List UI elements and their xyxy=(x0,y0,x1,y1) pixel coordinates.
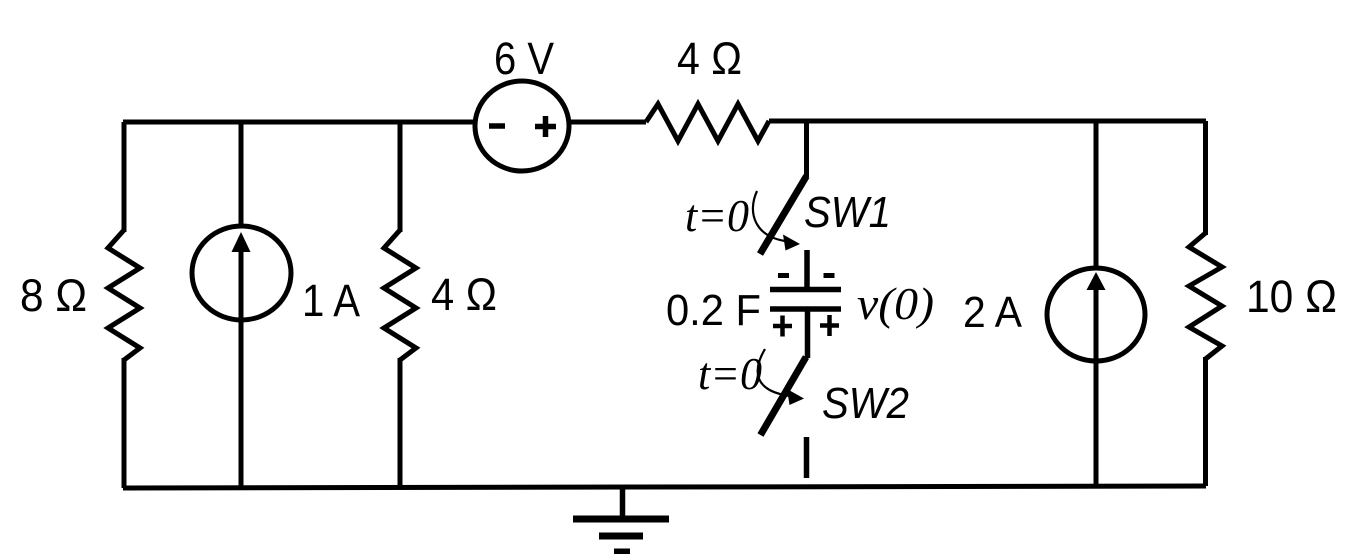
wire 2A branch upper xyxy=(1094,121,1099,269)
wire left vertical upper xyxy=(122,122,127,232)
svg-text:v(0): v(0) xyxy=(857,278,934,329)
svg-text:2 A: 2 A xyxy=(963,288,1023,337)
resistor R1 8ohm zigzag xyxy=(108,230,140,360)
wire between source and R top xyxy=(568,120,646,125)
ground bar 3 xyxy=(614,549,630,556)
wire top-right segment xyxy=(769,119,1206,124)
wire right vertical upper xyxy=(1203,121,1208,235)
resistor R4 10ohm zigzag xyxy=(1189,233,1222,359)
wire SW1 branch from top node xyxy=(804,121,809,177)
current source I2 arrowhead xyxy=(1087,272,1106,290)
wire 4ohm branch upper xyxy=(398,122,403,232)
svg-text:1 A: 1 A xyxy=(302,275,360,326)
wire right vertical lower xyxy=(1203,357,1208,486)
wire bottom xyxy=(123,486,1206,488)
svg-text:4 Ω: 4 Ω xyxy=(431,269,497,320)
resistor R3 4ohm top zigzag xyxy=(646,104,769,141)
switch SW1 blade xyxy=(760,176,807,254)
capacitor C1 plus polarity marks xyxy=(773,315,839,337)
switch SW1 actuation arc arrow xyxy=(753,191,785,241)
resistor R2 4ohm zigzag xyxy=(384,230,416,360)
svg-text:SW2: SW2 xyxy=(822,379,909,428)
wire 1A branch upper xyxy=(239,122,244,227)
wire top-left segment xyxy=(123,120,476,125)
svg-text:t=0: t=0 xyxy=(698,348,762,399)
svg-text:6 V: 6 V xyxy=(494,33,554,84)
voltage source V1 circle xyxy=(475,81,569,171)
current source I1 circle xyxy=(192,226,291,320)
ground bar 1 xyxy=(573,516,669,523)
switch SW2 blade xyxy=(761,357,807,435)
svg-text:10 Ω: 10 Ω xyxy=(1246,271,1337,322)
svg-text:8 Ω: 8 Ω xyxy=(20,270,87,321)
switch SW2 actuation arc arrow xyxy=(758,349,790,396)
wire 4ohm branch lower xyxy=(398,358,403,488)
current source I1 arrowhead xyxy=(232,232,251,252)
voltage source V1 plus sign xyxy=(535,116,556,137)
capacitor C1 bottom stub xyxy=(805,311,811,358)
svg-text:0.2 F: 0.2 F xyxy=(666,286,761,335)
wire left vertical lower xyxy=(122,358,127,488)
svg-text:4 Ω: 4 Ω xyxy=(677,33,742,84)
current source I2 arrow shaft and wire to bottom xyxy=(1094,289,1099,486)
wire SW2 lower stub xyxy=(804,437,810,478)
capacitor C1 bottom plate xyxy=(770,306,841,312)
current source I2 circle xyxy=(1047,268,1145,361)
voltage source V1 minus sign xyxy=(489,123,505,129)
capacitor C1 top stub xyxy=(804,250,810,288)
ground stub xyxy=(620,488,626,518)
capacitor C1 minus polarity marks xyxy=(778,273,835,278)
current source I1 arrow shaft and wire to bottom xyxy=(239,250,244,488)
capacitor C1 top plate xyxy=(770,287,841,293)
svg-text:t=0: t=0 xyxy=(685,190,749,241)
svg-text:SW1: SW1 xyxy=(804,188,891,237)
ground bar 2 xyxy=(599,533,643,540)
